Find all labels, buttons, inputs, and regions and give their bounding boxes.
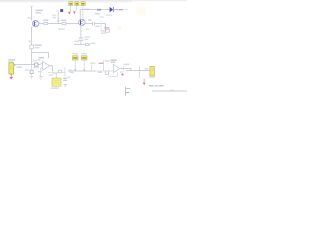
junction input node bbox=[31, 64, 32, 65]
junction blob on rail bbox=[97, 9, 101, 11]
title block tick bbox=[170, 90, 174, 91]
label near terminals bbox=[85, 9, 90, 11]
label below C4 bbox=[95, 26, 99, 28]
label left of network bbox=[75, 41, 80, 43]
capacitor C4 on Q2 output bbox=[93, 22, 95, 26]
power terminal arrow 1 bbox=[68, 12, 71, 15]
label right cluster bbox=[106, 14, 112, 16]
wire: Q1 base/collector horizontal run bbox=[39, 23, 79, 25]
red node dot bbox=[122, 74, 124, 76]
component blue block at bias top bbox=[60, 9, 63, 12]
pins under relay bbox=[149, 76, 155, 77]
wire: opamp output bbox=[50, 66, 53, 72]
power probe flag P3 bbox=[81, 2, 85, 19]
wire: into op-amp U2 bbox=[96, 70, 118, 76]
resistor R4 on horizontal run bbox=[61, 20, 66, 25]
power probe flag P1 bbox=[69, 2, 73, 12]
label left of RV1 bbox=[49, 74, 53, 75]
resistor R5 red pin text bbox=[119, 9, 123, 10]
label under mic wire bbox=[17, 67, 23, 68]
faint pale mark bbox=[118, 26, 122, 30]
wire: to relay bbox=[140, 70, 150, 72]
label right of node bbox=[104, 60, 109, 62]
label tiny above network bbox=[86, 28, 89, 29]
red pin marks mid bbox=[104, 27, 109, 28]
wire: mic to opamp input bbox=[14, 64, 41, 66]
window top edge band bbox=[0, 0, 187, 1]
wire: drive vertical bbox=[139, 66, 141, 78]
voltage probe V2 bbox=[81, 53, 87, 71]
op-amp U1 bbox=[41, 61, 50, 70]
label right of C5 bbox=[67, 76, 70, 77]
LED D1 bbox=[110, 3, 114, 12]
label text under bias node bbox=[52, 15, 56, 17]
wire: opamp bias down bbox=[40, 68, 42, 76]
title block text bbox=[149, 85, 154, 87]
label left of relay bbox=[144, 68, 148, 69]
resistor R6 on bottom wire bbox=[86, 43, 89, 45]
ground terminal right area bbox=[143, 79, 146, 85]
label C3 value bbox=[84, 36, 90, 38]
label under R7 bbox=[101, 32, 106, 33]
wire: input node down to bias resistor bbox=[31, 65, 33, 70]
terminal top of Q1 collector wire bbox=[30, 6, 33, 7]
label below node left bbox=[98, 72, 102, 73]
label U2 line1 bbox=[111, 59, 117, 61]
wire: emitter leg continues to input line bbox=[31, 49, 33, 65]
wire: top rail to LED bbox=[80, 9, 109, 11]
label above C4 bbox=[100, 16, 104, 18]
microphone MIC1 bbox=[9, 63, 14, 74]
label mid lower run bbox=[90, 62, 95, 64]
wire: Q2 collector up to rail bbox=[79, 10, 81, 20]
label above feedback wire bbox=[37, 52, 41, 53]
resistor R9 input bias to ground bbox=[30, 70, 33, 73]
relay RL1 yellow body bbox=[150, 66, 155, 76]
label Q1 value text bbox=[36, 10, 44, 14]
label under RV1 bbox=[51, 87, 59, 89]
ground terminal under mic bbox=[10, 74, 13, 80]
wire: Q2 output to corner bbox=[85, 24, 110, 31]
wire: vertical into comparator node bbox=[91, 65, 93, 71]
label below rail bbox=[95, 13, 100, 14]
capacitor C3 plates bbox=[79, 38, 84, 40]
op-amp U2 bbox=[114, 64, 120, 72]
capacitor C5 plates bbox=[63, 79, 67, 81]
wire: R9 to ground bbox=[31, 74, 33, 77]
resistor R5 body bbox=[114, 9, 118, 10]
ground below opamp bbox=[39, 77, 43, 80]
label under lower run left bbox=[70, 72, 74, 73]
component C2 on input wire bbox=[33, 63, 39, 68]
wire: main lower run with probes bbox=[68, 70, 96, 72]
resistor R8 on output bbox=[52, 70, 61, 74]
junction tick on bias wire bbox=[57, 20, 60, 21]
wire small vertical bbox=[100, 21, 102, 31]
component below node bbox=[105, 71, 108, 74]
power terminal arrow 2 bbox=[73, 11, 76, 14]
label U1 bbox=[39, 57, 45, 59]
voltage probe V1 bbox=[72, 53, 78, 71]
label R text left of wire bbox=[27, 17, 31, 19]
power probe flag P2 bbox=[75, 2, 79, 12]
feedback tick bbox=[123, 66, 125, 70]
mic output pin bbox=[14, 64, 16, 66]
label right of Q2 bbox=[88, 19, 91, 21]
label C1 beside vertical wire bbox=[33, 60, 37, 62]
wire: U2 output run bbox=[120, 69, 140, 71]
title block top line bbox=[152, 90, 187, 92]
wire: Q1 emitter down bbox=[31, 27, 33, 45]
battery B1 bbox=[126, 87, 131, 96]
label MIC text bbox=[8, 59, 15, 61]
wire: pot feed bbox=[56, 73, 58, 78]
ground under R9 bbox=[30, 76, 33, 78]
transistor Q1 bbox=[33, 20, 39, 26]
wire: Q2 emitter down bbox=[80, 25, 82, 37]
label below opamp bbox=[38, 71, 42, 72]
label U2 line2 bbox=[111, 62, 116, 63]
potentiometer RV1 yellow body bbox=[52, 78, 61, 86]
resistor R2 on horizontal run bbox=[43, 19, 48, 24]
transistor Q2 bbox=[79, 19, 85, 25]
wire: emitter network bottom bbox=[74, 40, 90, 44]
wire: node vertical bbox=[103, 60, 105, 71]
wire: feedback row bbox=[48, 72, 65, 74]
junction node wire up to bias bbox=[57, 12, 59, 24]
faint highlight box region bbox=[137, 7, 146, 16]
ground under C5 bbox=[63, 85, 67, 87]
label above lower run bbox=[69, 69, 72, 70]
wire: V+ rail drop to Q1 collector bbox=[31, 7, 33, 21]
label above U2 output bbox=[123, 64, 129, 66]
label value text below run bbox=[58, 28, 65, 30]
label R6 value bbox=[90, 43, 95, 45]
red pin marks at node bbox=[99, 63, 104, 64]
label after resistor bbox=[124, 9, 129, 10]
resistor R7 small box bbox=[106, 29, 109, 32]
wire: branch to opamp bbox=[32, 53, 49, 59]
wire: cap branch right of RV1 bbox=[64, 67, 66, 81]
resistor R1 on Q1 emitter leg bbox=[29, 41, 42, 49]
label left of R9 bbox=[25, 69, 29, 70]
label below U2 out bbox=[120, 71, 124, 72]
